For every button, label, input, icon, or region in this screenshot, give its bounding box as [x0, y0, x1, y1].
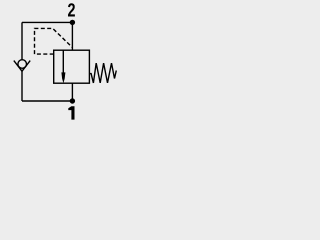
- node 2: [70, 20, 75, 25]
- port label 1: [68, 106, 74, 119]
- pilot line (dashed): [35, 28, 73, 54]
- wire valve outlet to node 1: [71, 83, 73, 101]
- check valve ball V1: [18, 60, 27, 69]
- wire left rail upper: [21, 22, 23, 60]
- port label 2: [68, 3, 75, 16]
- wire left rail lower: [21, 71, 23, 101]
- wire node 2 to valve inlet: [71, 22, 73, 50]
- flow path arrow: [62, 50, 64, 76]
- relief valve body: [54, 50, 90, 83]
- node 1: [70, 98, 75, 103]
- wire bottom rail: [22, 100, 72, 102]
- wire top rail: [22, 21, 72, 23]
- spring: [89, 63, 116, 83]
- check valve seat: [14, 61, 30, 72]
